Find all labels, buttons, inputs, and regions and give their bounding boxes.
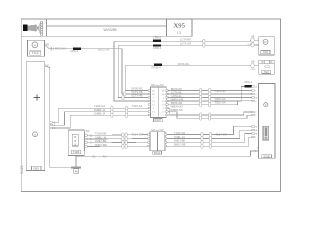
svg-text:D: D [264,40,266,44]
svg-text:R312: R312 [154,151,161,155]
svg-text:531B: 531B [263,155,269,159]
svg-text:GB2: GB2 [33,167,39,171]
svg-text:T30S-GA: T30S-GA [214,97,225,101]
svg-text:3F0S-RG: 3F0S-RG [178,62,189,66]
svg-text:5A: 5A [270,61,273,64]
svg-text:GP0S-4: GP0S-4 [151,65,161,69]
svg-text:1MEL-JA: 1MEL-JA [174,135,185,139]
svg-text:7G0: 7G0 [264,70,270,74]
svg-text:T10S-SA: T10S-SA [132,104,143,108]
svg-text:1MDC-BE: 1MDC-BE [173,143,185,147]
svg-text:GR: GR [160,128,164,132]
svg-text:3RG2-SA: 3RG2-SA [55,46,67,50]
svg-text:X95: X95 [174,23,186,30]
svg-text:T1S4-GR: T1S4-GR [95,132,106,136]
svg-text:T1S4-GR: T1S4-GR [132,133,143,137]
svg-text:1MEJ-BE: 1MEJ-BE [95,139,107,143]
svg-text:R107: R107 [155,118,162,122]
svg-text:3-122: 3-122 [20,165,24,174]
svg-text:T11B: T11B [73,150,80,154]
svg-text:7G0: 7G0 [263,50,269,54]
svg-text:RU: RU [103,154,107,158]
svg-text:NL: NL [92,154,96,158]
svg-text:1MDC-BE: 1MDC-BE [95,143,107,147]
svg-text:1CTA-GR: 1CTA-GR [180,42,192,46]
svg-text:NC: NC [160,83,164,87]
svg-text:3RG2-SA: 3RG2-SA [98,47,110,51]
svg-text:C2B: C2B [250,69,255,71]
svg-text:AB: AB [251,36,255,39]
svg-text:T114: T114 [32,51,39,55]
svg-text:CRN 4: CRN 4 [70,49,79,53]
svg-text:1MEB-JA: 1MEB-JA [94,111,106,115]
svg-text:AB: AB [251,61,255,64]
svg-text:T30S-GA: T30S-GA [214,101,225,105]
svg-text:C: C [265,103,267,107]
svg-text:1CTA-RK: 1CTA-RK [180,38,192,42]
svg-text:T10S-SA: T10S-SA [215,89,226,93]
svg-text:CRN 4: CRN 4 [153,46,162,50]
svg-text:NS: NS [86,129,90,133]
svg-text:1MEJ-BE: 1MEJ-BE [174,139,186,143]
svg-text:1B: 1B [261,62,264,64]
svg-text:5CTV-4B: 5CTV-4B [132,94,143,98]
svg-text:T1S4-GR: T1S4-GR [215,133,226,137]
svg-text:13: 13 [177,30,182,35]
svg-text:GP0S-BC: GP0S-BC [131,87,143,91]
svg-text:T10S-GA: T10S-GA [94,104,105,108]
svg-text:GR: GR [151,128,155,132]
svg-text:CRN A: CRN A [153,36,161,40]
svg-text:1MEB-JA: 1MEB-JA [94,108,106,112]
svg-text:T1S4-GR: T1S4-GR [174,131,185,135]
svg-text:WV0285: WV0285 [103,28,116,32]
svg-text:ND: ND [151,83,155,87]
svg-text:3MEN-NO: 3MEN-NO [170,105,182,109]
svg-text:CRN 1: CRN 1 [244,80,252,84]
svg-text:C2B: C2B [248,44,253,46]
svg-text:1MEL-JA: 1MEL-JA [95,135,106,139]
